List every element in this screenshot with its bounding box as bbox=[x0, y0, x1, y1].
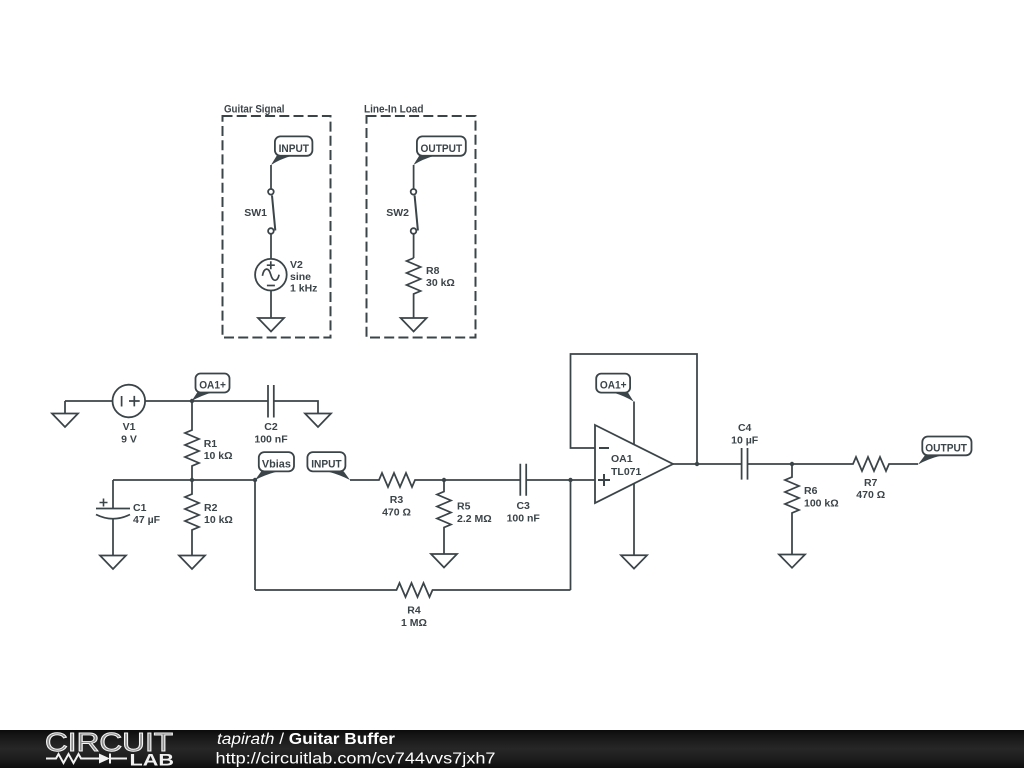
wire op-amp output bbox=[673, 463, 742, 465]
wire rail to C1 bbox=[112, 480, 114, 509]
voltage source V2 sine bbox=[255, 259, 317, 295]
Line-In Load enclosure bbox=[364, 104, 476, 338]
node dot op-amp output bbox=[695, 462, 699, 466]
resistor R4 bbox=[255, 583, 571, 629]
node OA1+ (flag at V1/R1/C2 junction) bbox=[192, 374, 230, 402]
svg-text:tapirath / Guitar Buffer: tapirath / Guitar Buffer bbox=[217, 731, 395, 748]
ground (Line-In Load) bbox=[401, 318, 427, 332]
wire SW2 to R8 bbox=[413, 233, 415, 258]
node Vbias (flag) bbox=[255, 452, 294, 480]
wire bias rail bbox=[113, 479, 255, 481]
node dot V1/R1/C2 junction bbox=[190, 399, 194, 403]
wire C3 to op-amp + input bbox=[526, 479, 595, 481]
ground (right of C2) bbox=[305, 414, 331, 428]
ground (below op-amp) bbox=[621, 555, 647, 568]
wire OUTPUT flag to SW2 bbox=[413, 165, 415, 189]
wire C1 to ground bbox=[112, 519, 114, 556]
CircuitLab logo resistor-diode glyph bbox=[46, 754, 127, 764]
capacitor C4 bbox=[731, 422, 759, 480]
wire SW1 to V2 bbox=[270, 234, 272, 260]
svg-text:http://circuitlab.com/cv744vvs: http://circuitlab.com/cv744vvs7jxh7 bbox=[216, 751, 496, 768]
ground (below R5) bbox=[431, 554, 457, 568]
node INPUT (flag at R3) bbox=[307, 452, 350, 480]
ground (Guitar Signal) bbox=[258, 318, 284, 332]
resistor R2 bbox=[185, 480, 233, 556]
wire V1 to node A bbox=[145, 400, 268, 402]
capacitor C3 bbox=[507, 464, 541, 525]
resistor R3 bbox=[350, 473, 444, 519]
wire C2 to ground bbox=[274, 401, 318, 414]
capacitor C1 polarized bbox=[96, 499, 161, 527]
node dot C3/R4 junction bbox=[568, 478, 572, 482]
node OA1+ (flag at op-amp V+ pin) bbox=[596, 374, 633, 402]
node dot R3/R5 junction bbox=[442, 478, 446, 482]
capacitor C2 bbox=[254, 385, 288, 446]
wire ground to V1 bbox=[65, 400, 113, 402]
op-amp OA1 TL071 bbox=[595, 425, 673, 503]
wire C4 to R6 junction bbox=[748, 463, 793, 465]
wire V2 to ground bbox=[270, 291, 272, 319]
ground (below R2) bbox=[179, 556, 205, 570]
wire feedback loop output to inverting input bbox=[571, 354, 698, 464]
wire R4 riser bbox=[570, 480, 572, 590]
footer bar bbox=[0, 730, 1024, 768]
resistor R5 bbox=[437, 480, 492, 554]
ground (left of V1) bbox=[52, 401, 78, 427]
Guitar Signal enclosure bbox=[223, 104, 331, 338]
wire R5 junction to C3 bbox=[444, 479, 520, 481]
resistor R8 bbox=[407, 258, 455, 318]
switch SW1 bbox=[244, 189, 275, 234]
node dot C4/R6 junction bbox=[790, 462, 794, 466]
node OUTPUT (flag in Line-In Load box) bbox=[413, 136, 465, 165]
wire op-amp V+ pin bbox=[633, 402, 635, 447]
wire op-amp V- pin to ground bbox=[633, 481, 635, 555]
wire INPUT flag to SW1 bbox=[270, 165, 272, 189]
resistor R6 bbox=[785, 464, 839, 555]
voltage source V1 9V battery bbox=[113, 385, 146, 446]
ground (below R6) bbox=[779, 555, 805, 568]
node OUTPUT (flag at R7) bbox=[918, 437, 972, 465]
switch SW2 bbox=[386, 189, 418, 234]
ground (below C1) bbox=[100, 556, 126, 570]
node dot R1/R2 junction bbox=[190, 478, 194, 482]
svg-text:LAB: LAB bbox=[130, 752, 175, 768]
wire Vbias down to R4 rail bbox=[254, 480, 256, 590]
resistor R1 bbox=[185, 401, 233, 480]
node dot Vbias bbox=[253, 478, 257, 482]
resistor R7 bbox=[792, 457, 918, 501]
node INPUT (flag in Guitar Signal box) bbox=[271, 136, 312, 165]
